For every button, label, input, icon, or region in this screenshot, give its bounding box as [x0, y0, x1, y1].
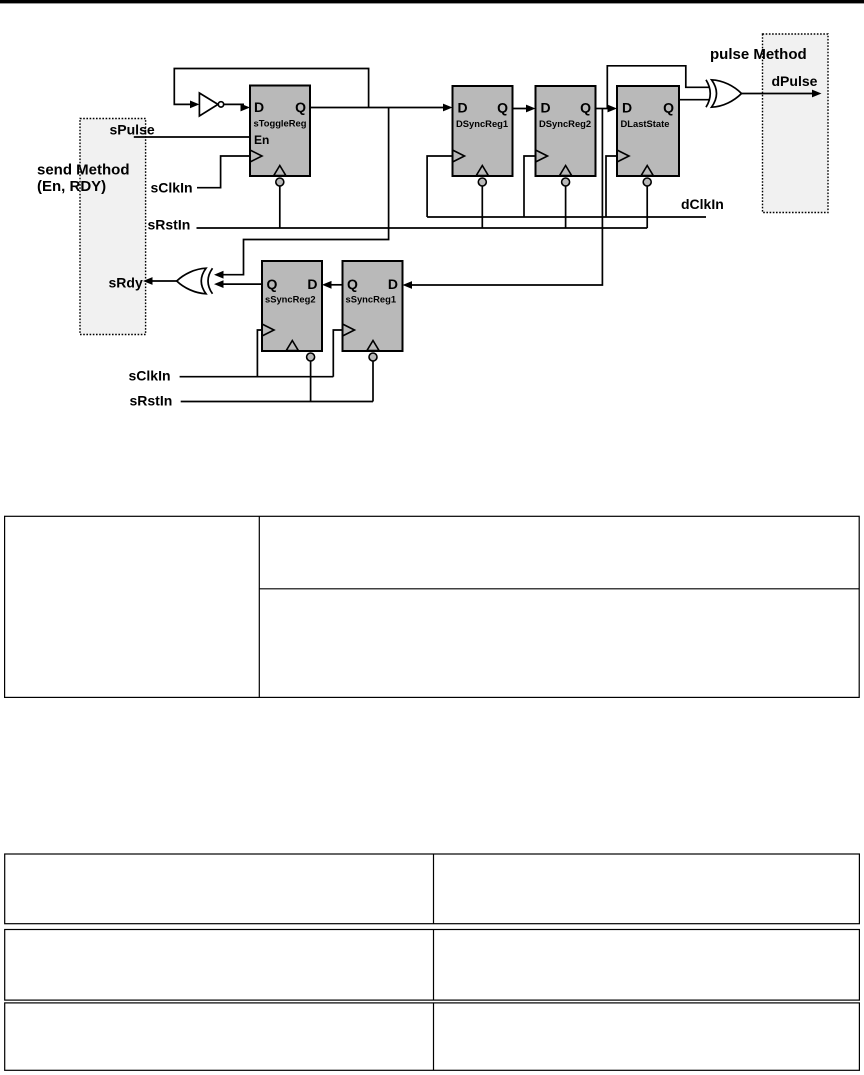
wire sPulse to En	[134, 136, 250, 138]
svg-text:pulse Method: pulse Method	[710, 46, 807, 63]
wire DSyncReg2 Q to DLastState D	[596, 108, 612, 110]
svg-text:DLastState: DLastState	[621, 118, 670, 129]
top rule bar	[0, 0, 864, 3]
svg-text:D: D	[388, 276, 398, 292]
wire sSyncReg1 clock	[333, 330, 342, 377]
wire sRstIn rail	[197, 227, 648, 229]
svg-text:sSyncReg2: sSyncReg2	[265, 294, 316, 305]
table 2 row 2 divider	[433, 930, 435, 1001]
svg-text:sRdy: sRdy	[109, 275, 143, 291]
table 2 row 1	[5, 854, 860, 924]
clock input triangle	[536, 150, 548, 162]
wire inverter output to D	[224, 103, 244, 105]
svg-text:D: D	[541, 100, 551, 116]
arrowhead into DLastState D	[608, 105, 618, 113]
svg-text:sRstIn: sRstIn	[148, 216, 191, 232]
flip-flop sSyncReg2	[262, 261, 322, 361]
wire sSyncReg1 reset to rail	[372, 361, 374, 402]
wire DSyncReg1 reset to rail	[481, 186, 483, 228]
arrowhead into DSyncReg2 D	[526, 105, 536, 113]
inverter bubble	[218, 102, 223, 107]
svg-text:dClkIn: dClkIn	[681, 196, 724, 212]
svg-text:sClkIn: sClkIn	[129, 368, 171, 384]
arrowhead into inverter	[190, 101, 199, 109]
wire DSyncReg1 clock	[427, 156, 452, 217]
arrowhead into sSyncReg1 D	[403, 281, 413, 289]
arrowhead dPulse	[812, 90, 822, 98]
svg-text:sClkIn: sClkIn	[151, 180, 193, 196]
reset triangle	[476, 166, 488, 176]
wire sClkIn lower rail	[180, 376, 334, 378]
arrowhead sRdy	[143, 277, 153, 285]
svg-text:DSyncReg2: DSyncReg2	[539, 118, 591, 129]
wire DLastState Q to XOR	[679, 99, 709, 101]
reset bubble	[562, 178, 570, 186]
svg-text:send Method: send Method	[37, 162, 130, 179]
arrowhead into sToggleReg D	[241, 104, 251, 112]
wire sToggleReg reset to rail	[279, 186, 281, 228]
pulse Method interface box	[763, 34, 829, 213]
svg-text:(En, RDY): (En, RDY)	[37, 178, 106, 195]
reset triangle	[560, 166, 572, 176]
wire sRdy output	[148, 280, 178, 282]
svg-text:Q: Q	[295, 99, 306, 115]
inverter	[199, 93, 223, 116]
XOR gate dPulse	[706, 80, 742, 107]
table 1 outer border	[5, 516, 860, 697]
XOR gate sRdy	[177, 268, 213, 294]
reset triangle	[367, 341, 379, 351]
inverter triangle	[199, 93, 218, 116]
svg-text:Q: Q	[347, 276, 358, 292]
flip-flop DSyncReg1	[453, 86, 513, 186]
clock input triangle	[250, 150, 262, 162]
reset triangle	[641, 166, 653, 176]
clock input triangle	[262, 324, 274, 336]
table 2 row 1 divider	[433, 854, 435, 924]
wire branch down to sRdy XOR	[223, 108, 389, 275]
table 2 row 3	[5, 1003, 860, 1070]
wire sRstIn lower rail	[181, 401, 373, 403]
reset bubble	[307, 353, 315, 361]
reset bubble	[369, 353, 377, 361]
reset bubble	[643, 178, 651, 186]
arrowhead into sSyncReg2 D	[322, 281, 332, 289]
wire sClkIn to sToggleReg clock	[197, 156, 250, 188]
reset triangle	[274, 166, 286, 176]
svg-text:Q: Q	[663, 100, 674, 116]
wire sToggleReg Q to DSyncReg1 D	[310, 107, 446, 109]
arrowhead XOR bottom input	[214, 280, 224, 288]
svg-text:sToggleReg: sToggleReg	[254, 117, 307, 128]
wire DSyncReg1 Q to DSyncReg2 D	[513, 108, 531, 110]
wire DLastState reset to rail	[646, 186, 648, 228]
svg-text:sPulse: sPulse	[110, 122, 155, 138]
arrowhead into DSyncReg1 D	[443, 104, 453, 112]
wire sSyncReg1 Q to sSyncReg2 D	[328, 284, 343, 286]
svg-text:D: D	[254, 99, 264, 115]
clock input triangle	[343, 324, 355, 336]
reset triangle	[286, 341, 298, 351]
wire dClkIn rail	[427, 216, 706, 218]
arrowhead XOR top input	[214, 271, 224, 279]
wire sSyncReg2 reset to rail	[310, 361, 312, 402]
wire DSyncReg2 clock	[524, 156, 536, 217]
wire DSyncReg2 reset to rail	[565, 186, 567, 228]
svg-text:Q: Q	[580, 100, 591, 116]
reset bubble	[478, 178, 486, 186]
table 1 right row divider	[259, 588, 859, 590]
wire sSyncReg2 Q to XOR	[220, 283, 262, 285]
svg-text:dPulse: dPulse	[772, 73, 818, 89]
svg-text:Q: Q	[497, 100, 508, 116]
svg-text:D: D	[307, 276, 317, 292]
table 2 row 3 divider	[433, 1003, 435, 1070]
table 2 row 2	[5, 930, 860, 1001]
send Method interface box	[80, 119, 146, 335]
svg-text:Q: Q	[267, 276, 278, 292]
svg-text:DSyncReg1: DSyncReg1	[456, 118, 508, 129]
flip-flop DSyncReg2	[536, 86, 596, 186]
wire DLastState clock	[606, 156, 617, 217]
wire branch up to dPulse XOR	[607, 66, 709, 109]
flip-flop DLastState	[617, 86, 679, 186]
svg-text:sRstIn: sRstIn	[130, 392, 173, 408]
svg-text:sSyncReg1: sSyncReg1	[346, 294, 397, 305]
wire dPulse output	[742, 93, 817, 95]
wire branch down to sSyncReg1 D	[408, 109, 602, 286]
svg-text:En: En	[254, 133, 269, 147]
table 1 column divider	[258, 516, 260, 697]
clock input triangle	[453, 150, 465, 162]
flip-flop sSyncReg1	[343, 261, 403, 361]
svg-text:D: D	[458, 100, 468, 116]
flip-flop sToggleReg	[250, 86, 310, 187]
reset bubble	[276, 178, 284, 186]
svg-text:D: D	[622, 100, 632, 116]
wire sSyncReg2 clock	[257, 330, 262, 377]
wire feedback Q to inverter	[174, 69, 368, 108]
clock input triangle	[617, 150, 629, 162]
